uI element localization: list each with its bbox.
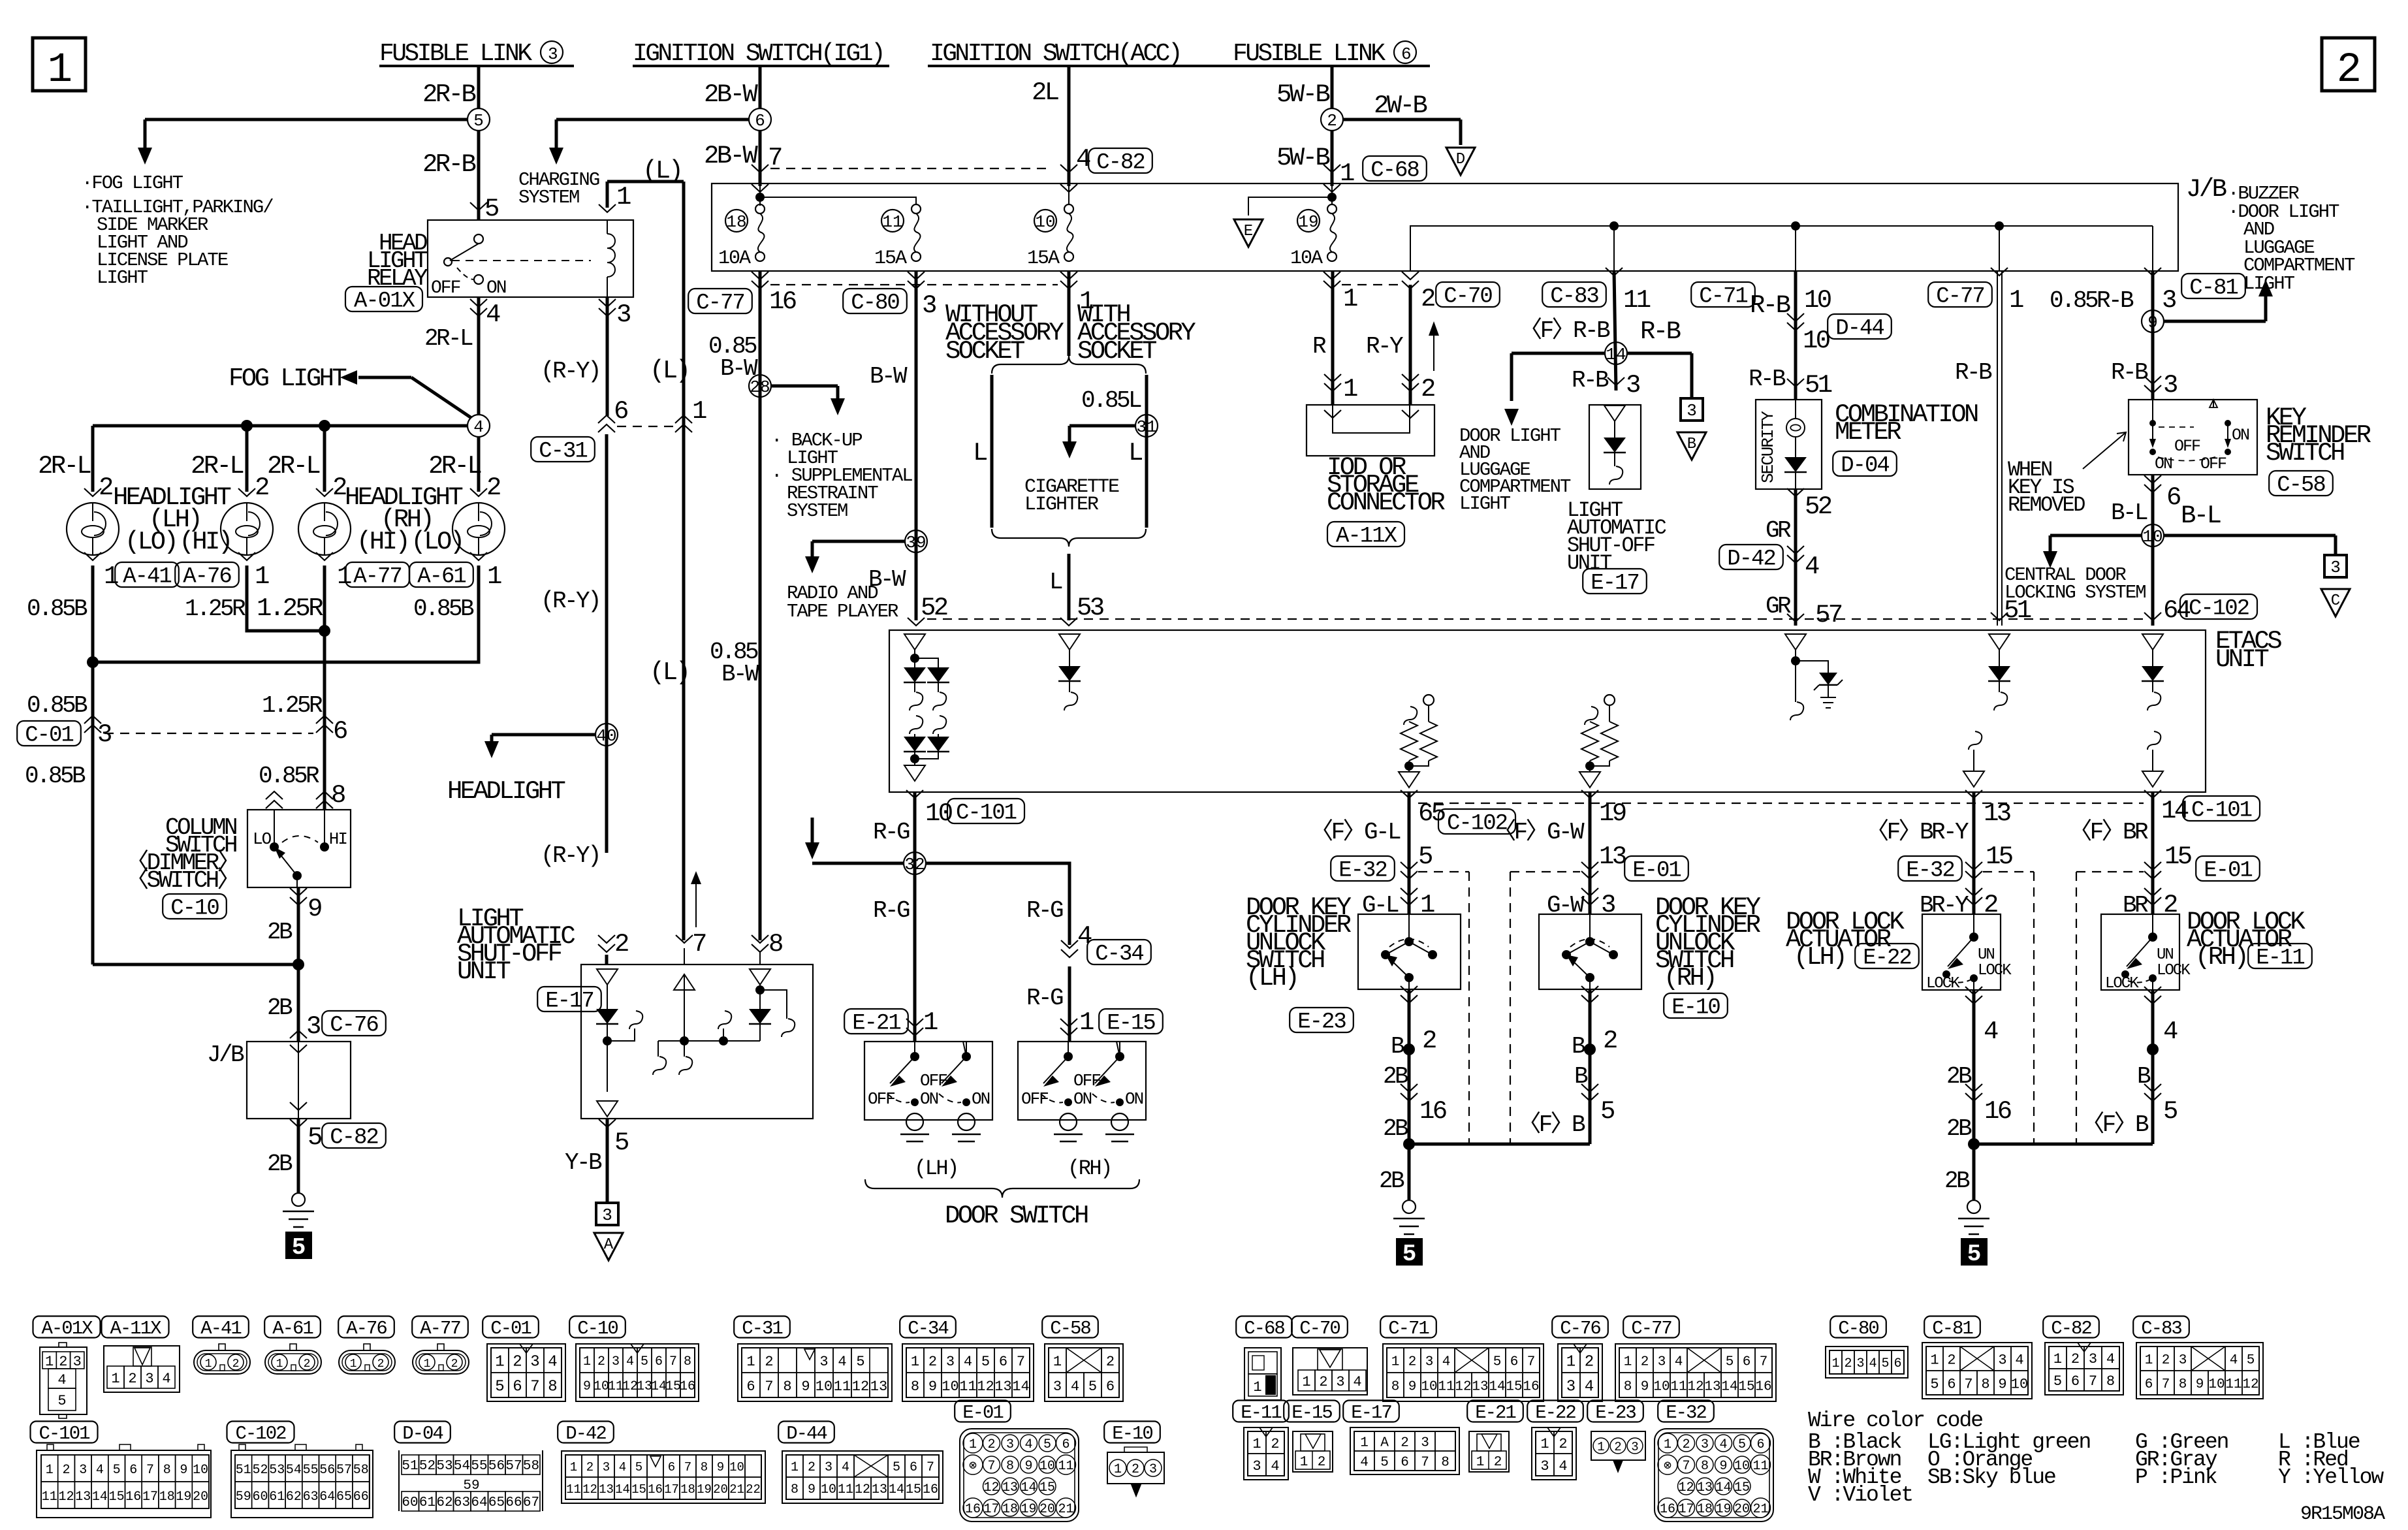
svg-text:3: 3 <box>2162 286 2176 315</box>
svg-text:5: 5 <box>292 1234 306 1261</box>
svg-text:3: 3 <box>2089 1351 2097 1367</box>
svg-text:63: 63 <box>454 1495 470 1510</box>
svg-text:1: 1 <box>923 1008 938 1037</box>
svg-text:C-82: C-82 <box>2051 1318 2091 1339</box>
svg-text:20: 20 <box>193 1490 208 1505</box>
J/B internal bus from pin 2 <box>1410 226 2153 271</box>
svg-text:8: 8 <box>163 1463 171 1478</box>
connector table label D-04 <box>394 1422 451 1444</box>
connector table label A-11X <box>102 1316 169 1339</box>
wire 2B-W from IG1 <box>704 66 760 109</box>
dashed connector C-70 line <box>1342 282 1500 310</box>
svg-text:20: 20 <box>713 1482 728 1497</box>
svg-text:2R-L: 2R-L <box>424 325 473 352</box>
svg-text:4: 4 <box>1984 1017 1998 1046</box>
svg-text:9: 9 <box>1719 1459 1727 1474</box>
connector pinout E-22 <box>1532 1427 1576 1480</box>
2R-L labels at headlights <box>38 452 481 481</box>
svg-text:2L: 2L <box>1032 78 1058 107</box>
svg-text:E-15: E-15 <box>1291 1402 1332 1424</box>
svg-text:R-G: R-G <box>873 897 910 924</box>
svg-text:A-41: A-41 <box>123 565 171 590</box>
connector C-31 dashed link <box>531 357 706 464</box>
svg-text:2: 2 <box>1585 1354 1594 1371</box>
svg-text:5: 5 <box>308 1123 321 1152</box>
svg-text:3: 3 <box>1252 1458 1261 1474</box>
svg-text:J/B: J/B <box>207 1042 244 1068</box>
page ref square 3 bottom <box>596 1203 618 1225</box>
svg-text:1: 1 <box>1831 1356 1839 1371</box>
svg-text:3: 3 <box>1425 1355 1434 1370</box>
svg-text:9R15M08A: 9R15M08A <box>2300 1503 2385 1525</box>
svg-text:16: 16 <box>965 1502 981 1517</box>
ignition switch ACC header <box>928 40 1252 68</box>
svg-text:5: 5 <box>635 1460 642 1474</box>
svg-text:UN: UN <box>2157 946 2173 964</box>
connector pinout C-71 <box>1383 1344 1544 1401</box>
svg-text:6: 6 <box>1893 1356 1901 1371</box>
connector table label E-21 <box>1467 1401 1523 1424</box>
svg-text:10A: 10A <box>1290 247 1323 270</box>
svg-text:2: 2 <box>1559 1436 1567 1452</box>
svg-text:8: 8 <box>768 930 782 959</box>
svg-text:57: 57 <box>336 1463 352 1478</box>
svg-text:R-B: R-B <box>1750 291 1790 320</box>
svg-text:C-77: C-77 <box>696 291 744 316</box>
connector pinout E-11 <box>1244 1427 1288 1480</box>
svg-text:6: 6 <box>1756 1437 1764 1452</box>
relay output pin 4 wire 2R-L <box>470 297 500 415</box>
svg-text:15A: 15A <box>874 247 907 270</box>
svg-text:10: 10 <box>816 1379 832 1395</box>
svg-text:2: 2 <box>2162 1353 2170 1368</box>
connector pinout C-31 <box>738 1344 892 1401</box>
connector table label C-58 <box>1042 1316 1098 1339</box>
column switch output pin 9 wire 2B <box>267 887 321 964</box>
svg-text:FUSIBLE LINK: FUSIBLE LINK <box>1233 40 1386 68</box>
connector table label A-01X <box>33 1316 101 1339</box>
svg-text:8: 8 <box>1391 1380 1400 1395</box>
svg-text:10: 10 <box>821 1482 836 1497</box>
connector A-11X label <box>1327 522 1404 549</box>
svg-text:4: 4 <box>1024 1437 1032 1452</box>
svg-text:14: 14 <box>1489 1380 1505 1395</box>
svg-text:OFF: OFF <box>1021 1089 1048 1109</box>
label 2R-L on pin4 wire <box>424 325 473 352</box>
svg-text:C-34: C-34 <box>1095 942 1143 967</box>
HEADLIGHT (LH) label <box>113 483 231 556</box>
wire F BR-Y from ETACS pin 13 <box>1865 790 2012 919</box>
svg-text:58: 58 <box>523 1459 539 1474</box>
svg-text:52: 52 <box>252 1463 268 1478</box>
svg-text:1: 1 <box>1597 1440 1604 1454</box>
svg-text:7: 7 <box>146 1463 154 1478</box>
svg-text:2: 2 <box>1947 1352 1956 1368</box>
svg-text:15: 15 <box>1039 1480 1055 1495</box>
light automatic shut-off unit E-17 box <box>581 964 813 1119</box>
svg-text:A-11X: A-11X <box>1336 524 1397 549</box>
svg-text:DOOR SWITCH: DOOR SWITCH <box>945 1202 1088 1230</box>
connector C-77 pin 16 label <box>688 287 796 316</box>
svg-text:R-B: R-B <box>1640 317 1681 346</box>
connector pinout C-80 <box>1826 1347 1908 1378</box>
svg-text:2: 2 <box>232 1358 240 1371</box>
connector pinout E-32 <box>1655 1429 1773 1522</box>
svg-text:D-44: D-44 <box>1835 317 1884 342</box>
svg-text:OFF: OFF <box>2174 437 2200 456</box>
connector pinout E-10 <box>1107 1447 1164 1497</box>
svg-text:3: 3 <box>1687 401 1697 421</box>
svg-text:C-71: C-71 <box>1388 1318 1429 1339</box>
node 28 junction <box>749 375 771 397</box>
svg-text:〈F〉G-L: 〈F〉G-L <box>1310 818 1401 846</box>
svg-text:16: 16 <box>1660 1502 1675 1517</box>
svg-text:2: 2 <box>255 473 268 502</box>
svg-text:64: 64 <box>471 1495 487 1510</box>
connector pinout C-101 <box>37 1444 211 1518</box>
svg-text:1: 1 <box>1079 1008 1094 1037</box>
door key cylinder unlock switch LH box <box>1358 914 1461 989</box>
svg-text:22: 22 <box>746 1482 761 1497</box>
svg-text:1: 1 <box>1343 285 1357 313</box>
fuse 11 15A <box>874 204 921 270</box>
connector table label E-32 <box>1658 1401 1714 1424</box>
accessory socket brace top <box>992 356 1146 374</box>
svg-text:2R-L: 2R-L <box>267 452 319 481</box>
ETACS internals pin 57 zener <box>1785 634 1843 720</box>
svg-text:1: 1 <box>1252 1436 1261 1452</box>
svg-text:12: 12 <box>852 1379 869 1395</box>
svg-text:3: 3 <box>602 1205 612 1225</box>
svg-text:UNIT: UNIT <box>2215 645 2268 674</box>
connector A-76 label <box>175 562 239 590</box>
svg-text:5: 5 <box>2163 1097 2177 1126</box>
wire below actuator LH <box>1946 987 2011 1200</box>
HEADLIGHT branch arrow into node 40 <box>447 735 596 806</box>
svg-text:8: 8 <box>684 1354 691 1369</box>
svg-text:8: 8 <box>1624 1380 1632 1395</box>
svg-text:LIGHT: LIGHT <box>97 267 148 289</box>
svg-text:6: 6 <box>1743 1355 1751 1370</box>
svg-text:E-11: E-11 <box>2256 946 2304 971</box>
svg-text:4: 4 <box>1077 922 1092 951</box>
svg-text:1: 1 <box>1391 1355 1400 1370</box>
branch arrow to cigarette lighter <box>1062 426 1136 458</box>
svg-text:R-B: R-B <box>1749 366 1786 392</box>
svg-text:4: 4 <box>1585 1379 1594 1396</box>
svg-text:6: 6 <box>1401 44 1410 64</box>
svg-text:C-102: C-102 <box>2189 597 2249 622</box>
svg-text:LOCK: LOCK <box>1978 962 2012 980</box>
svg-text:SYSTEM: SYSTEM <box>787 500 848 522</box>
label (R-Y) lower <box>541 842 599 869</box>
svg-text:14: 14 <box>1721 1380 1737 1395</box>
svg-text:5: 5 <box>1726 1355 1734 1370</box>
svg-text:13: 13 <box>1704 1380 1720 1395</box>
svg-text:1: 1 <box>1930 1352 1939 1368</box>
svg-text:C-81: C-81 <box>1932 1318 1972 1339</box>
IOD or storage connector A-11X box <box>1307 405 1434 456</box>
ignition switch IG1 header <box>633 40 889 68</box>
node 9 junction <box>2142 310 2164 332</box>
svg-text:2R-L: 2R-L <box>428 452 481 481</box>
svg-text:E-11: E-11 <box>1241 1402 1281 1424</box>
connector table label C-10 <box>569 1316 626 1339</box>
door switch LH RH labels and brace <box>914 1156 1111 1181</box>
svg-text:6: 6 <box>129 1463 137 1478</box>
svg-text:B-L: B-L <box>2181 502 2221 530</box>
J/B internal feed wires <box>755 183 1337 215</box>
junction dot 2B wire <box>93 959 304 1042</box>
svg-text:63: 63 <box>303 1490 319 1505</box>
svg-text:4: 4 <box>1360 1456 1369 1471</box>
svg-text:D-44: D-44 <box>786 1423 827 1444</box>
svg-text:UNIT: UNIT <box>457 957 510 986</box>
svg-text:2: 2 <box>1984 891 1997 919</box>
headlight bulb RH inner <box>298 488 351 555</box>
connector table label E-01 <box>955 1401 1011 1424</box>
svg-text:3: 3 <box>1631 1440 1638 1454</box>
svg-text:E-17: E-17 <box>1591 571 1639 596</box>
svg-text:LIGHT: LIGHT <box>2243 273 2295 295</box>
svg-text:LIGHTER: LIGHTER <box>1024 494 1099 516</box>
svg-text:2B: 2B <box>267 1151 293 1177</box>
junction block J/B main box <box>712 175 2226 271</box>
svg-text:2: 2 <box>1132 1462 1139 1477</box>
svg-text:16: 16 <box>1419 1097 1446 1126</box>
svg-text:1: 1 <box>205 1358 212 1371</box>
svg-text:13: 13 <box>1984 799 2010 828</box>
svg-text:C-68: C-68 <box>1244 1318 1284 1339</box>
svg-text:0.85R: 0.85R <box>259 763 319 789</box>
svg-text:C-58: C-58 <box>1050 1318 1090 1339</box>
dashed connector C-101/C-102 line below ETACS <box>1418 803 2144 804</box>
svg-text:54: 54 <box>454 1459 470 1474</box>
svg-text:5: 5 <box>1881 1356 1889 1371</box>
svg-text:60: 60 <box>252 1490 268 1505</box>
svg-text:54: 54 <box>286 1463 302 1478</box>
svg-text:10: 10 <box>1035 212 1055 232</box>
svg-text:15: 15 <box>109 1490 125 1505</box>
svg-text:A-61: A-61 <box>272 1318 313 1339</box>
svg-text:2R-B: 2R-B <box>422 150 475 179</box>
svg-text:2: 2 <box>987 1437 995 1452</box>
svg-text:C-76: C-76 <box>330 1013 378 1038</box>
svg-text:3: 3 <box>1701 1437 1709 1452</box>
svg-text:2: 2 <box>1421 375 1434 404</box>
branch to door light arrow <box>1504 353 1606 426</box>
svg-text:〈SWITCH〉: 〈SWITCH〉 <box>125 867 238 894</box>
svg-text:40: 40 <box>596 726 616 746</box>
svg-text:12: 12 <box>1455 1380 1471 1395</box>
svg-text:4: 4 <box>2106 1351 2115 1367</box>
svg-text:7: 7 <box>2162 1377 2170 1392</box>
svg-text:SECURITY: SECURITY <box>1758 411 1778 483</box>
svg-text:SOCKET: SOCKET <box>945 337 1024 366</box>
ETACS internals pin 53 diode <box>1058 634 1081 710</box>
wire R-G from ETACS pin 10 <box>873 790 1024 1042</box>
shutoff unit internals pin8 branch <box>749 969 795 1041</box>
connector pinout E-01 <box>960 1429 1079 1522</box>
connector table label C-77 <box>1623 1316 1679 1339</box>
svg-text:(R-Y): (R-Y) <box>541 842 599 869</box>
svg-text:(R-Y): (R-Y) <box>541 588 599 614</box>
svg-text:4: 4 <box>964 1354 972 1370</box>
svg-text:5: 5 <box>1493 1355 1502 1370</box>
svg-text:C-83: C-83 <box>2141 1318 2181 1339</box>
door lock actuator RH box <box>2101 914 2191 993</box>
svg-text:6: 6 <box>755 111 765 131</box>
svg-text:1: 1 <box>1302 1374 1310 1390</box>
svg-text:R: R <box>1312 333 1326 360</box>
svg-text:3: 3 <box>1336 1374 1344 1390</box>
connector pinout D-44 <box>782 1451 943 1503</box>
svg-text:18: 18 <box>1697 1502 1713 1517</box>
connector table label C-82 <box>2043 1316 2099 1339</box>
svg-text:4: 4 <box>842 1460 849 1475</box>
svg-text:1: 1 <box>2009 286 2023 315</box>
svg-text:E-22: E-22 <box>1863 946 1911 971</box>
svg-text:5: 5 <box>1043 1437 1051 1452</box>
svg-text:D-04: D-04 <box>1841 454 1889 479</box>
svg-text:LIGHT: LIGHT <box>1459 493 1511 515</box>
connector table label C-01 <box>483 1316 539 1339</box>
svg-text:7: 7 <box>1421 1456 1429 1471</box>
svg-text:0.85B: 0.85B <box>27 692 87 719</box>
svg-text:(RH): (RH) <box>2195 943 2247 972</box>
svg-text:3: 3 <box>306 1012 320 1041</box>
svg-text:19: 19 <box>697 1482 712 1497</box>
svg-text:52: 52 <box>419 1459 436 1474</box>
svg-text:6: 6 <box>999 1354 1007 1370</box>
svg-text:55: 55 <box>471 1459 487 1474</box>
connector C-82 dashed line pins 7-4 <box>770 145 1152 176</box>
svg-text:B: B <box>1391 1033 1404 1060</box>
IOD connector pin 2 wire R-Y <box>1366 285 1434 405</box>
headlight pin 2 labels <box>99 473 500 502</box>
shutoff unit pin 7 entry <box>676 930 706 964</box>
svg-text:1: 1 <box>969 1437 977 1452</box>
connector table label C-80 <box>1830 1316 1886 1339</box>
shutoff unit internals pin2 branch <box>596 969 642 1117</box>
shutoff unit output pin 5 Y-B <box>565 1119 628 1202</box>
svg-text:4: 4 <box>2163 1017 2178 1046</box>
svg-text:1: 1 <box>1079 287 1094 316</box>
svg-text:ON: ON <box>2155 454 2172 473</box>
svg-text:2: 2 <box>304 1358 311 1371</box>
page tab 1 <box>33 38 86 94</box>
svg-text:53: 53 <box>269 1463 285 1478</box>
svg-text:B: B <box>1572 1033 1585 1060</box>
svg-text:11: 11 <box>566 1482 581 1497</box>
svg-text:C-58: C-58 <box>2277 473 2325 498</box>
svg-text:10: 10 <box>1734 1459 1750 1474</box>
svg-text:1: 1 <box>1624 1355 1632 1370</box>
svg-text:7: 7 <box>987 1459 995 1474</box>
svg-text:2W-B: 2W-B <box>1374 91 1427 120</box>
connector pinout A-61 <box>265 1344 321 1374</box>
svg-text:10: 10 <box>1803 327 1830 355</box>
svg-text:1: 1 <box>111 1371 119 1387</box>
svg-text:1: 1 <box>2053 1351 2062 1367</box>
svg-text:REMOVED: REMOVED <box>2008 493 2085 517</box>
J/B buzzer / door light list <box>2228 183 2355 295</box>
page ref tab 5 right <box>1961 1238 1988 1267</box>
connector table label C-76 <box>1552 1316 1608 1339</box>
svg-text:7: 7 <box>692 930 706 959</box>
svg-text:6: 6 <box>2071 1373 2080 1390</box>
svg-text:11: 11 <box>1670 1380 1687 1395</box>
svg-text:5: 5 <box>981 1354 990 1370</box>
svg-text:18: 18 <box>726 212 746 232</box>
svg-text:9: 9 <box>717 1460 724 1474</box>
svg-text:E-21: E-21 <box>1475 1402 1515 1424</box>
svg-text:16: 16 <box>923 1482 938 1497</box>
svg-text:B: B <box>1574 1063 1588 1090</box>
svg-text:19: 19 <box>1715 1502 1731 1517</box>
svg-text:2: 2 <box>1494 1455 1502 1470</box>
svg-text:2: 2 <box>451 1358 458 1371</box>
svg-text:D-42: D-42 <box>1727 547 1775 572</box>
DOOR SWITCH label <box>945 1202 1088 1230</box>
svg-text:A-76: A-76 <box>346 1318 387 1339</box>
svg-text:60: 60 <box>402 1495 418 1510</box>
svg-text:OFF: OFF <box>2200 454 2226 473</box>
door switch LH box <box>864 1042 992 1141</box>
svg-text:1: 1 <box>1053 1354 1062 1370</box>
signal direction up arrow <box>1429 321 1439 371</box>
svg-text:C-82: C-82 <box>1096 151 1145 176</box>
svg-text:C-101: C-101 <box>956 801 1017 826</box>
svg-text:18: 18 <box>680 1482 695 1497</box>
svg-text:13: 13 <box>637 1379 652 1394</box>
svg-text:4: 4 <box>626 1354 634 1369</box>
column switch internals LO/HI <box>253 810 347 887</box>
fuse 19 10A <box>1290 204 1337 270</box>
connector pinout A-77 <box>413 1344 469 1374</box>
svg-text:FUSIBLE LINK: FUSIBLE LINK <box>379 40 532 68</box>
svg-text:2B: 2B <box>1946 1115 1972 1142</box>
svg-text:TAPE PLAYER: TAPE PLAYER <box>787 601 898 622</box>
shutoff diode E-17 label <box>1583 569 1647 596</box>
svg-text:3: 3 <box>825 1460 832 1475</box>
svg-text:SWITCH: SWITCH <box>2266 439 2344 468</box>
svg-text:C-31: C-31 <box>539 439 587 464</box>
svg-text:4: 4 <box>1271 1458 1279 1474</box>
svg-text:10: 10 <box>1804 286 1831 315</box>
svg-text:14: 14 <box>1012 1379 1029 1395</box>
shutoff unit pin 8 entry <box>752 930 782 964</box>
wire 2B to ground <box>267 1119 298 1193</box>
svg-text:ON: ON <box>920 1089 938 1109</box>
svg-text:C-77: C-77 <box>1936 285 1984 310</box>
connector table label C-81 <box>1924 1316 1980 1339</box>
svg-text:0.85B: 0.85B <box>27 596 87 622</box>
svg-text:10: 10 <box>193 1463 208 1478</box>
svg-text:C-77: C-77 <box>1631 1318 1671 1339</box>
svg-text:12: 12 <box>1678 1480 1694 1495</box>
svg-text:A-11X: A-11X <box>110 1318 161 1339</box>
svg-text:21: 21 <box>1752 1502 1768 1517</box>
svg-text:2R-L: 2R-L <box>191 452 243 481</box>
svg-text:3: 3 <box>1540 1458 1549 1474</box>
shutoff unit pin 2 entry <box>598 930 628 964</box>
ETACS internals pin 13 output <box>1963 731 1984 787</box>
svg-text:5: 5 <box>1088 1379 1097 1395</box>
svg-text:1: 1 <box>2145 1353 2153 1368</box>
connector table label C-101 <box>31 1422 98 1444</box>
svg-text:C: C <box>2331 592 2340 610</box>
